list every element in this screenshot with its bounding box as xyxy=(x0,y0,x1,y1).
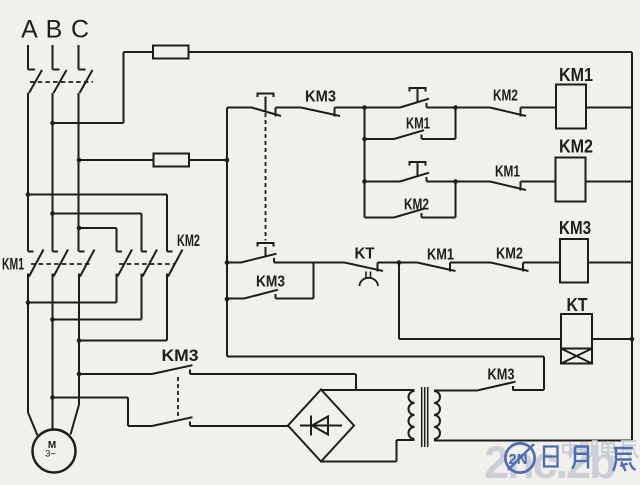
svg-text:KM2: KM2 xyxy=(493,88,518,105)
svg-text:KM3: KM3 xyxy=(305,89,336,106)
svg-text:KM1: KM1 xyxy=(495,164,520,181)
svg-text:KM1: KM1 xyxy=(2,255,24,274)
svg-text:KM2: KM2 xyxy=(559,137,593,157)
svg-text:B: B xyxy=(46,16,63,44)
svg-text:KT: KT xyxy=(567,295,588,315)
svg-text:KM1: KM1 xyxy=(406,116,430,133)
svg-text:KM3: KM3 xyxy=(488,367,515,384)
svg-text:KM3: KM3 xyxy=(162,346,199,365)
svg-text:KT: KT xyxy=(355,246,375,263)
svg-text:KM2: KM2 xyxy=(496,246,523,263)
svg-text:KM1: KM1 xyxy=(427,247,454,264)
svg-text:KM3: KM3 xyxy=(256,274,285,291)
svg-text:KM2: KM2 xyxy=(177,231,200,250)
svg-text:KM2: KM2 xyxy=(404,197,429,214)
svg-text:C: C xyxy=(71,16,89,44)
svg-text:A: A xyxy=(21,16,38,44)
svg-text:3~: 3~ xyxy=(45,449,56,460)
svg-text:KM3: KM3 xyxy=(559,218,591,238)
svg-text:2nc.2b: 2nc.2b xyxy=(484,437,615,480)
svg-text:KM1: KM1 xyxy=(559,65,593,85)
